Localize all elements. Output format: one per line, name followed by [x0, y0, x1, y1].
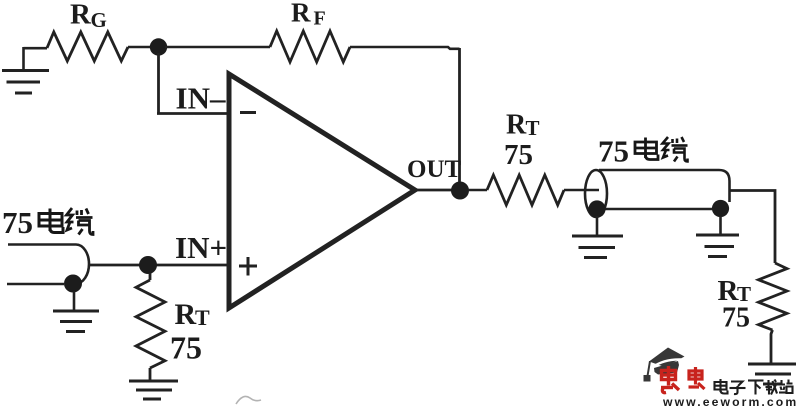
op-amp minus pin mark [240, 111, 256, 114]
svg-text:G: G [91, 8, 107, 32]
wire node A to RF [165, 46, 270, 49]
node cable CB1 terminal dot [64, 275, 82, 293]
wire feedback vertical [458, 48, 461, 185]
wire RF to feedback corner [350, 47, 460, 49]
ground under CB2 right terminal [696, 235, 739, 257]
svg-text:75: 75 [2, 205, 33, 240]
scan artifact curl [236, 396, 261, 404]
wire node B to RT2 [468, 189, 487, 192]
node A junction dot [150, 38, 167, 55]
op-amp U1 [229, 74, 415, 308]
cable CB2 body 75 coax [585, 170, 730, 217]
wire CB1 to IN+ [89, 264, 230, 267]
label RF [291, 0, 326, 30]
ground under RT1 [129, 381, 178, 399]
svg-text:T: T [526, 116, 540, 140]
label CB2 75 cable [598, 134, 688, 169]
svg-text:R: R [175, 298, 197, 331]
resistor RT1 [136, 280, 165, 368]
op-amp plus pin mark [239, 257, 257, 276]
label RT1 [175, 298, 211, 331]
label RG [70, 0, 107, 32]
label RT3 [718, 275, 752, 307]
wire node A down to IN- [157, 53, 160, 114]
svg-text:R: R [506, 110, 527, 141]
label 75 cable bottom-left [2, 205, 93, 240]
svg-text:75: 75 [170, 330, 202, 366]
svg-text:IN–: IN– [176, 81, 226, 116]
logo graduation cap [644, 348, 685, 382]
wire IN- horizontal [157, 112, 229, 115]
svg-text:IN+: IN+ [175, 230, 227, 265]
resistor RT3 [759, 263, 788, 330]
wire CB2 output to RT3 [730, 191, 776, 264]
svg-text:R: R [291, 0, 311, 28]
node B output junction dot [451, 182, 469, 200]
resistor RF [270, 31, 350, 62]
svg-text:75: 75 [722, 303, 750, 334]
node cable CB2 right terminal dot [712, 200, 729, 217]
svg-text:75: 75 [504, 139, 533, 171]
wire ground to RG [24, 47, 48, 50]
logo text dianzi xiazaizhan [715, 379, 793, 395]
node C IN+ junction dot [139, 256, 157, 274]
logo cap white swoosh [652, 359, 681, 367]
svg-text:75: 75 [598, 134, 629, 169]
ground top-left [2, 47, 49, 93]
wire RT1 to ground [149, 368, 152, 381]
resistor RG [47, 32, 128, 61]
ground bottom-right [748, 364, 796, 384]
wire node C down to RT1 [149, 273, 152, 280]
svg-text:OUT: OUT [407, 156, 462, 183]
wire CB1 terminal to ground [73, 291, 76, 311]
resistor RT2 [487, 175, 564, 205]
wire RT2 to cable CB2 [564, 189, 599, 192]
ground under CB2 left terminal [572, 236, 623, 258]
cable CB1 body bottom-left [7, 245, 89, 285]
svg-text:R: R [70, 0, 92, 31]
wire RT3 to ground [771, 330, 773, 364]
wire CB2 right terminal to ground [719, 216, 722, 235]
svg-text:www.eeworm.com: www.eeworm.com [662, 395, 796, 407]
wire CB2 left terminal to ground [596, 216, 599, 236]
wire RG to node A [128, 46, 152, 49]
svg-text:T: T [195, 305, 210, 330]
svg-text:F: F [314, 8, 326, 30]
wire op-amp output to node B [415, 189, 452, 192]
label RT2 [506, 110, 540, 141]
ground under CB1 terminal [53, 311, 99, 332]
node cable CB2 left terminal dot [588, 200, 605, 217]
logo chongchong characters [661, 366, 705, 393]
